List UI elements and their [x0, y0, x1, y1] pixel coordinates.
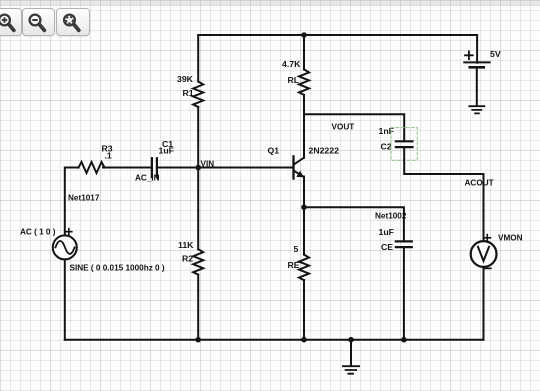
- svg-text:1uF: 1uF: [379, 227, 394, 237]
- wire: voltmeter bottom lead: [483, 267, 485, 340]
- wire: R1 upper lead: [197, 35, 199, 82]
- resistor R2: [193, 249, 203, 275]
- wire: R3 right lead to C1: [103, 167, 152, 169]
- zoom-out button: [22, 8, 55, 36]
- battery V2 plus mark: [465, 52, 473, 60]
- wire: C2 bottom to ACOUT rail: [404, 147, 483, 174]
- svg-text:R2: R2: [182, 254, 193, 264]
- svg-text:VMON: VMON: [498, 234, 523, 243]
- wire: +5V top rail: [198, 34, 477, 36]
- wire: battery bottom lead: [476, 69, 478, 105]
- svg-text:RL: RL: [288, 75, 300, 85]
- svg-text:5: 5: [294, 244, 299, 254]
- junction dot: RL top node: [301, 32, 307, 38]
- AC source sine wave: [55, 241, 74, 254]
- junction dot: bottom rail at CE: [401, 337, 407, 343]
- ground symbol (bottom): [343, 366, 359, 374]
- svg-text:C2: C2: [381, 142, 392, 152]
- svg-text:SINE ( 0 0.015 1000hz 0 ): SINE ( 0 0.015 1000hz 0 ): [70, 264, 165, 273]
- capacitor CE: [396, 241, 412, 247]
- junction dot: bottom rail at R2: [195, 337, 201, 343]
- svg-text:ACOUT: ACOUT: [465, 179, 494, 188]
- svg-text:.1: .1: [105, 151, 112, 161]
- svg-text:Net1002: Net1002: [375, 212, 407, 221]
- wire: ACOUT corner down to voltmeter: [483, 174, 485, 241]
- zoom-fit button: [56, 8, 90, 36]
- zoom-in button: [0, 8, 22, 36]
- svg-text:AC_IN: AC_IN: [135, 174, 160, 183]
- resistor R3: [79, 162, 105, 173]
- svg-text:RE: RE: [288, 260, 300, 270]
- svg-text:5V: 5V: [490, 49, 501, 59]
- wire: top rail corner down to battery: [476, 35, 478, 63]
- voltmeter V glyph: [478, 247, 489, 261]
- wire: RE bottom lead: [303, 280, 305, 340]
- battery 5V negative plate: [470, 66, 484, 69]
- svg-text:Net1017: Net1017: [68, 194, 100, 203]
- wire: RL bottom to VOUT corner to Q1 collector: [303, 95, 305, 158]
- wire: R1 bottom to VIN to R2: [197, 107, 199, 249]
- svg-text:39K: 39K: [177, 74, 194, 84]
- wire: VIN row, C1 to Q1 base: [157, 167, 294, 169]
- ground symbol (battery): [469, 106, 484, 113]
- battery 5V positive plate: [464, 61, 489, 63]
- AC source V1 plus mark: [66, 229, 72, 235]
- capacitor C2: [396, 141, 413, 147]
- junction dot: node VIN: [195, 165, 201, 171]
- resistor RE: [299, 255, 309, 281]
- resistor RL: [299, 69, 309, 95]
- transistor Q1 (2N2222 NPN): [294, 156, 305, 178]
- svg-text:CE: CE: [381, 242, 393, 252]
- wire: Q1 emitter lead: [303, 177, 305, 208]
- junction dot: emitter node: [301, 204, 307, 210]
- svg-text:4.7K: 4.7K: [282, 59, 301, 69]
- AC source circle: [53, 235, 77, 259]
- svg-text:VOUT: VOUT: [332, 123, 355, 132]
- voltmeter VMON circle: [471, 241, 497, 267]
- wire: ground stub: [350, 340, 352, 366]
- wire: AC source bottom lead: [64, 259, 66, 339]
- junction dot: bottom rail at RE: [301, 337, 307, 343]
- wire: emitter node to RE: [303, 207, 305, 254]
- svg-text:Q1: Q1: [268, 146, 280, 156]
- svg-text:1uF: 1uF: [159, 146, 174, 156]
- svg-text:11K: 11K: [178, 240, 194, 250]
- wire: CE bottom lead: [403, 247, 405, 340]
- wire: VOUT rail to C2: [304, 114, 404, 141]
- wire: R2 bottom lead: [197, 275, 199, 340]
- wire: emitter node to CE: [304, 207, 404, 241]
- resistor R1: [193, 82, 203, 108]
- wire: RL upper lead: [303, 35, 305, 69]
- wire: ground bottom rail: [65, 339, 484, 341]
- svg-text:AC ( 1 0 ): AC ( 1 0 ): [20, 228, 56, 237]
- junction dot: bottom rail at ground stub: [348, 337, 354, 343]
- wire: R3 left lead and corner down to AC source: [65, 168, 79, 236]
- svg-text:R1: R1: [183, 88, 194, 98]
- selection box around C2: [391, 128, 417, 161]
- svg-text:2N2222: 2N2222: [309, 146, 340, 156]
- voltmeter VMON plus mark: [484, 235, 490, 241]
- voltmeter minus mark: [484, 267, 491, 269]
- capacitor C1: [152, 158, 157, 177]
